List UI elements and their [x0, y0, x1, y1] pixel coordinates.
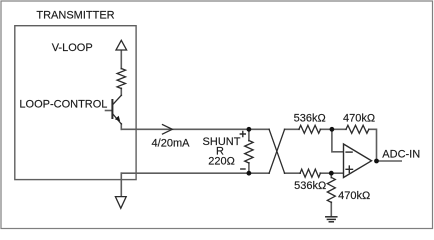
svg-text:V-LOOP: V-LOOP [52, 42, 93, 54]
svg-text:ADC-IN: ADC-IN [382, 149, 420, 161]
svg-text:220Ω: 220Ω [208, 156, 235, 168]
svg-text:4/20mA: 4/20mA [152, 138, 191, 150]
svg-text:LOOP-CONTROL: LOOP-CONTROL [19, 98, 107, 110]
svg-text:470kΩ: 470kΩ [338, 190, 370, 202]
svg-text:536kΩ: 536kΩ [294, 113, 326, 125]
svg-text:536kΩ: 536kΩ [294, 180, 326, 192]
svg-text:470kΩ: 470kΩ [343, 113, 375, 125]
svg-text:TRANSMITTER: TRANSMITTER [36, 10, 114, 22]
